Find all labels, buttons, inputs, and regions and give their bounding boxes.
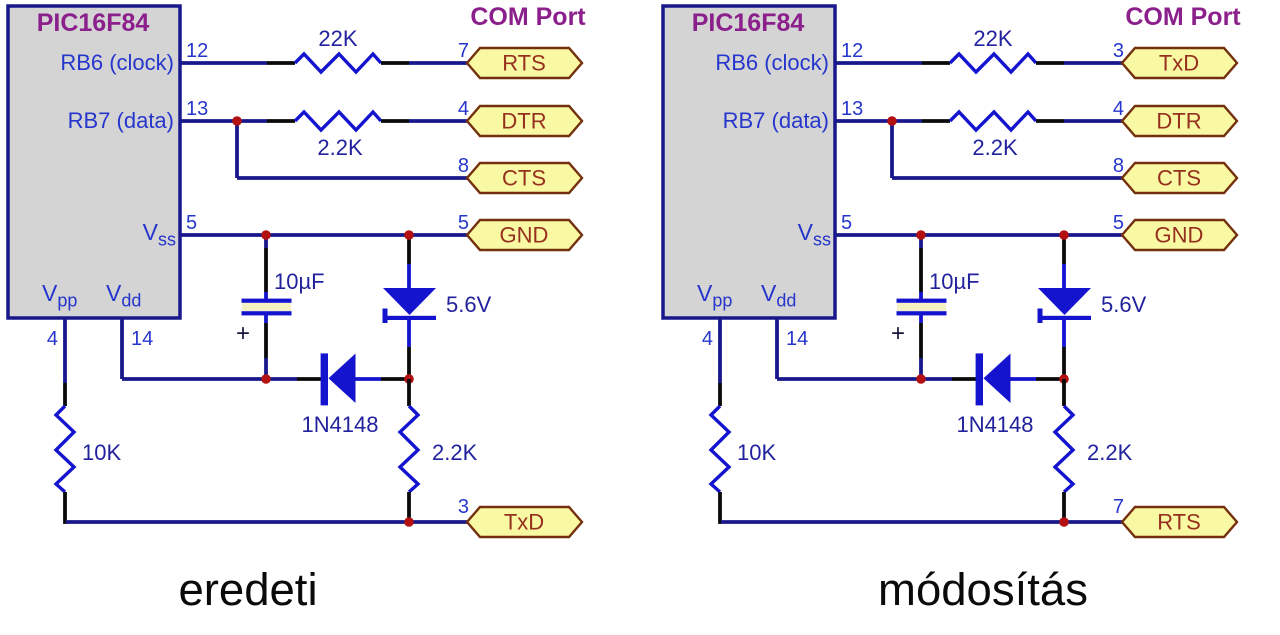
wire 1N4148 right lead blue (1010, 377, 1036, 381)
resistor 2.2K (series) (295, 112, 381, 130)
svg-text:COM Port: COM Port (470, 3, 586, 31)
resistor 10K (56, 406, 74, 492)
wire cap top stub (919, 235, 923, 248)
svg-text:DTR: DTR (1156, 109, 1201, 134)
connector CTS (1122, 163, 1237, 193)
resistor 22K (950, 54, 1036, 72)
junction RB7/CTS node (232, 116, 242, 126)
wire 22K right lead (381, 61, 409, 65)
svg-text:2.2K: 2.2K (432, 440, 478, 465)
wire zener top lead black (407, 238, 411, 264)
capacitor C1 gap tint (897, 303, 946, 311)
diode D2 1N4148 bar (976, 353, 983, 405)
svg-text:TxD: TxD (1159, 51, 1199, 76)
wire CTS branch vertical (890, 121, 894, 178)
svg-text:PIC16F84: PIC16F84 (37, 9, 150, 37)
wire Vdd horizontal (122, 377, 266, 381)
wire 1N4148 left lead navy (921, 377, 952, 381)
wire 10K top lead (718, 383, 722, 406)
wire zener top lead blue (407, 264, 411, 290)
svg-text:+: + (891, 320, 905, 347)
wire zener bottom lead blue (407, 320, 411, 347)
wire cap top lead black (919, 248, 923, 292)
wire bottom horizontal (66, 520, 409, 524)
wire zener top lead black (1062, 238, 1066, 264)
svg-text:12: 12 (841, 40, 863, 62)
resistor 2.2K (pull) (1055, 406, 1073, 492)
wire 1N4148 right lead black (1036, 377, 1064, 381)
wire RB7 net (navy stub from IC) (180, 119, 267, 123)
connector GND (1122, 220, 1237, 250)
connector CTS (467, 163, 582, 193)
svg-text:eredeti: eredeti (178, 564, 317, 615)
IC U1 PIC16F84 body (left) (8, 6, 180, 318)
svg-text:2.2K: 2.2K (972, 135, 1018, 160)
junction RB7/CTS node (887, 116, 897, 126)
wire CTS branch horizontal (892, 176, 1123, 180)
svg-text:RB7 (data): RB7 (data) (723, 108, 829, 133)
svg-text:13: 13 (841, 98, 863, 120)
wire GND net (835, 233, 1123, 237)
wire to TxD connector (1064, 61, 1123, 65)
resistor 10K (711, 406, 729, 492)
wire GND net (180, 233, 468, 237)
wire cap top stub (264, 235, 268, 248)
resistor 22K (295, 54, 381, 72)
wire cap bottom lead blue (919, 314, 923, 323)
wire to RTS connector (1064, 520, 1123, 524)
junction GND/zener node (1059, 230, 1069, 240)
capacitor C1 gap tint (242, 303, 291, 311)
wire cap bottom stub (919, 358, 923, 379)
wire bottom horizontal (721, 520, 1064, 524)
wire RB6 net (navy stub from IC) (180, 61, 267, 65)
wire zener bottom lead blue (1062, 320, 1066, 347)
diode D2 1N4148 triangle (329, 354, 356, 404)
capacitor C1 top plate (242, 299, 292, 303)
svg-text:RB6 (clock): RB6 (clock) (60, 50, 174, 75)
junction GND/zener node (404, 230, 414, 240)
wire 2.2K pull top lead (407, 379, 411, 406)
junction GND/cap node (261, 230, 271, 240)
wire 2.2K left lead (267, 119, 295, 123)
wire 1N4148 right lead black (381, 377, 409, 381)
wire cap bottom lead black (264, 323, 268, 358)
wire RB6 net (navy stub from IC) (835, 61, 922, 65)
svg-text:DTR: DTR (501, 109, 546, 134)
capacitor C1 bottom plate (897, 311, 947, 315)
wire 10K top lead (63, 383, 67, 406)
svg-text:PIC16F84: PIC16F84 (692, 9, 805, 37)
svg-text:4: 4 (47, 328, 58, 350)
wire to DTR connector (1064, 119, 1123, 123)
svg-text:5: 5 (186, 212, 197, 234)
svg-text:8: 8 (1113, 155, 1124, 177)
connector TxD (467, 507, 582, 537)
diode D2 1N4148 triangle (984, 354, 1011, 404)
wire to DTR connector (409, 119, 468, 123)
svg-text:4: 4 (458, 98, 469, 120)
svg-text:5: 5 (841, 212, 852, 234)
svg-text:14: 14 (786, 328, 808, 350)
connector DTR (467, 106, 582, 136)
wire 2.2K pull bottom lead (1062, 492, 1066, 522)
junction bottom node (404, 517, 414, 527)
wire cap top lead blue (264, 292, 268, 300)
wire 10K bottom lead (718, 492, 722, 524)
svg-text:RTS: RTS (502, 51, 546, 76)
wire 2.2K left lead (922, 119, 950, 123)
svg-text:10µF: 10µF (929, 269, 980, 294)
zener diode D1 triangle (383, 288, 436, 315)
svg-text:5: 5 (1113, 212, 1124, 234)
svg-text:13: 13 (186, 98, 208, 120)
junction bottom node (1059, 517, 1069, 527)
connector DTR (1122, 106, 1237, 136)
svg-text:5.6V: 5.6V (1101, 292, 1147, 317)
wire Vdd vertical (120, 318, 124, 379)
wire zener bottom lead black (1062, 347, 1066, 379)
wire 2.2K pull top lead (1062, 379, 1066, 406)
resistor 2.2K (series) (950, 112, 1036, 130)
svg-text:10K: 10K (737, 440, 776, 465)
wire cap bottom stub (264, 358, 268, 379)
junction cap/Vdd/diode node (261, 374, 271, 384)
svg-text:5: 5 (458, 212, 469, 234)
junction GND/cap node (916, 230, 926, 240)
wire 22K right lead (1036, 61, 1064, 65)
svg-text:GND: GND (1155, 223, 1204, 248)
wire to RTS connector (409, 61, 468, 65)
svg-text:12: 12 (186, 40, 208, 62)
junction zener/diode/2.2K node (404, 374, 414, 384)
zener diode D1 bar (383, 316, 437, 320)
diode D2 1N4148 bar (321, 353, 328, 405)
wire to TxD connector (409, 520, 468, 524)
wire 1N4148 left lead navy (266, 377, 297, 381)
wire Vpp vertical navy (63, 318, 67, 383)
svg-text:CTS: CTS (1157, 166, 1201, 191)
wire cap bottom lead black (919, 323, 923, 358)
svg-text:3: 3 (1113, 40, 1124, 62)
connector RTS (467, 48, 582, 78)
wire 22K left lead (267, 61, 295, 65)
resistor 2.2K (pull) (400, 406, 418, 492)
svg-text:10µF: 10µF (274, 269, 325, 294)
zener diode D1 bar (1038, 316, 1092, 320)
svg-text:1N4148: 1N4148 (301, 412, 378, 437)
svg-text:3: 3 (458, 496, 469, 518)
svg-text:5.6V: 5.6V (446, 292, 492, 317)
svg-text:1N4148: 1N4148 (956, 412, 1033, 437)
svg-text:GND: GND (500, 223, 549, 248)
capacitor C1 bottom plate (242, 311, 292, 315)
junction zener/diode/2.2K node (1059, 374, 1069, 384)
wire Vpp vertical navy (718, 318, 722, 383)
wire CTS branch vertical (235, 121, 239, 178)
wire RB7 net (navy stub from IC) (835, 119, 922, 123)
svg-text:RB6 (clock): RB6 (clock) (715, 50, 829, 75)
svg-text:7: 7 (458, 40, 469, 62)
IC U1 PIC16F84 body (right) (663, 6, 835, 318)
junction cap/Vdd/diode node (916, 374, 926, 384)
svg-text:22K: 22K (318, 26, 357, 51)
wire 2.2K right lead (1036, 119, 1064, 123)
connector RTS (1122, 507, 1237, 537)
connector TxD (1122, 48, 1237, 78)
svg-text:4: 4 (1113, 98, 1124, 120)
svg-text:4: 4 (702, 328, 713, 350)
wire cap bottom lead blue (264, 314, 268, 323)
wire cap top lead blue (919, 292, 923, 300)
wire Vdd horizontal (777, 377, 921, 381)
svg-text:2.2K: 2.2K (317, 135, 363, 160)
wire 1N4148 left lead black (297, 377, 321, 381)
capacitor C1 top plate (897, 299, 947, 303)
wire 1N4148 right lead blue (355, 377, 381, 381)
svg-text:2.2K: 2.2K (1087, 440, 1133, 465)
svg-text:10K: 10K (82, 440, 121, 465)
wire cap top lead black (264, 248, 268, 292)
svg-text:RTS: RTS (1157, 510, 1201, 535)
svg-text:8: 8 (458, 155, 469, 177)
zener diode D1 left hook (383, 309, 388, 324)
wire Vdd vertical (775, 318, 779, 379)
svg-text:7: 7 (1113, 496, 1124, 518)
zener diode D1 triangle (1038, 288, 1091, 315)
wire zener top lead blue (1062, 264, 1066, 290)
svg-text:CTS: CTS (502, 166, 546, 191)
wire zener bottom lead black (407, 347, 411, 379)
svg-text:TxD: TxD (504, 510, 544, 535)
wire 2.2K pull bottom lead (407, 492, 411, 522)
wire CTS branch horizontal (237, 176, 468, 180)
connector GND (467, 220, 582, 250)
wire 1N4148 left lead black (952, 377, 976, 381)
zener diode D1 left hook (1038, 309, 1043, 324)
svg-text:módosítás: módosítás (878, 564, 1088, 615)
svg-text:14: 14 (131, 328, 153, 350)
svg-text:+: + (236, 320, 250, 347)
wire 10K bottom lead (63, 492, 67, 524)
svg-text:RB7 (data): RB7 (data) (68, 108, 174, 133)
svg-text:22K: 22K (973, 26, 1012, 51)
svg-text:COM Port: COM Port (1125, 3, 1241, 31)
wire 22K left lead (922, 61, 950, 65)
wire 2.2K right lead (381, 119, 409, 123)
